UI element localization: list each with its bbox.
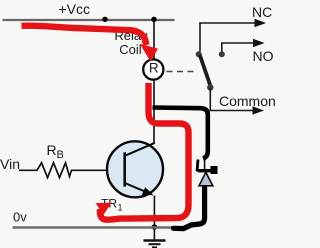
wire: +Vcc rail down to relay coil top — [153, 20, 155, 59]
transistor base bar — [123, 152, 126, 186]
junction dot on 0v rail — [152, 224, 158, 230]
switch NO contact dot — [219, 51, 225, 57]
svg-text:B: B — [57, 149, 64, 161]
switch NC contact dot — [196, 51, 202, 57]
wire NO: horizontal with arrow — [221, 42, 254, 44]
dashed line: relay coil to switch armature — [167, 71, 198, 73]
wire: emitter down to 0v rail and ground — [153, 196, 155, 240]
svg-text:NO: NO — [253, 48, 274, 64]
svg-text:NC: NC — [252, 4, 272, 20]
relay coil R — [143, 59, 163, 79]
svg-text:0v: 0v — [13, 210, 27, 225]
thick wire: diode bottom to 0v rail (freehand) — [174, 188, 205, 229]
svg-text:1: 1 — [118, 203, 123, 213]
svg-text:+Vcc: +Vcc — [59, 1, 91, 17]
thick wire: coil bottom node to diode top (freehand) — [153, 108, 208, 159]
diode terminal blob — [211, 166, 218, 174]
diode D1 triangle — [199, 172, 213, 186]
wire NC: vertical from NC arm — [199, 23, 201, 52]
wire Common: vertical from pole — [209, 88, 211, 111]
wire: diode anode lead — [204, 186, 206, 191]
svg-text:Common: Common — [219, 93, 276, 109]
diode cathode tick (left) — [197, 160, 198, 172]
transistor emitter diagonal with arrow — [126, 183, 145, 191]
switch armature (common to NC) — [200, 55, 211, 87]
svg-text:Vin: Vin — [0, 156, 20, 172]
transistor TR1 body — [107, 141, 163, 197]
diode cathode bar — [198, 169, 214, 172]
+Vcc rail — [3, 19, 175, 21]
red current path arrow: along +Vcc into relay coil — [22, 26, 147, 45]
wire: diode cathode lead — [204, 155, 206, 170]
transistor collector diagonal — [126, 143, 155, 156]
0v rail — [13, 226, 177, 228]
wire Common: horizontal with arrow — [210, 110, 255, 112]
wire: relay coil bottom down to transistor collector — [153, 81, 155, 144]
junction dot on +Vcc rail (left) — [102, 17, 107, 22]
svg-text:R: R — [149, 61, 159, 76]
svg-text:Coil: Coil — [119, 42, 142, 57]
wire NO: vertical from NO contact — [221, 43, 223, 52]
wire NC: horizontal with arrow — [199, 22, 256, 24]
wire: Vin to resistor, resistor RB zigzag, resistor to base — [19, 163, 108, 178]
junction dot on +Vcc rail (coil top node) — [151, 17, 156, 22]
switch common pole dot — [207, 84, 213, 90]
ground — [144, 241, 166, 248]
svg-text:R: R — [47, 142, 57, 158]
red current path arrow: coil bottom, through diode branch, back to transistor — [100, 83, 189, 220]
